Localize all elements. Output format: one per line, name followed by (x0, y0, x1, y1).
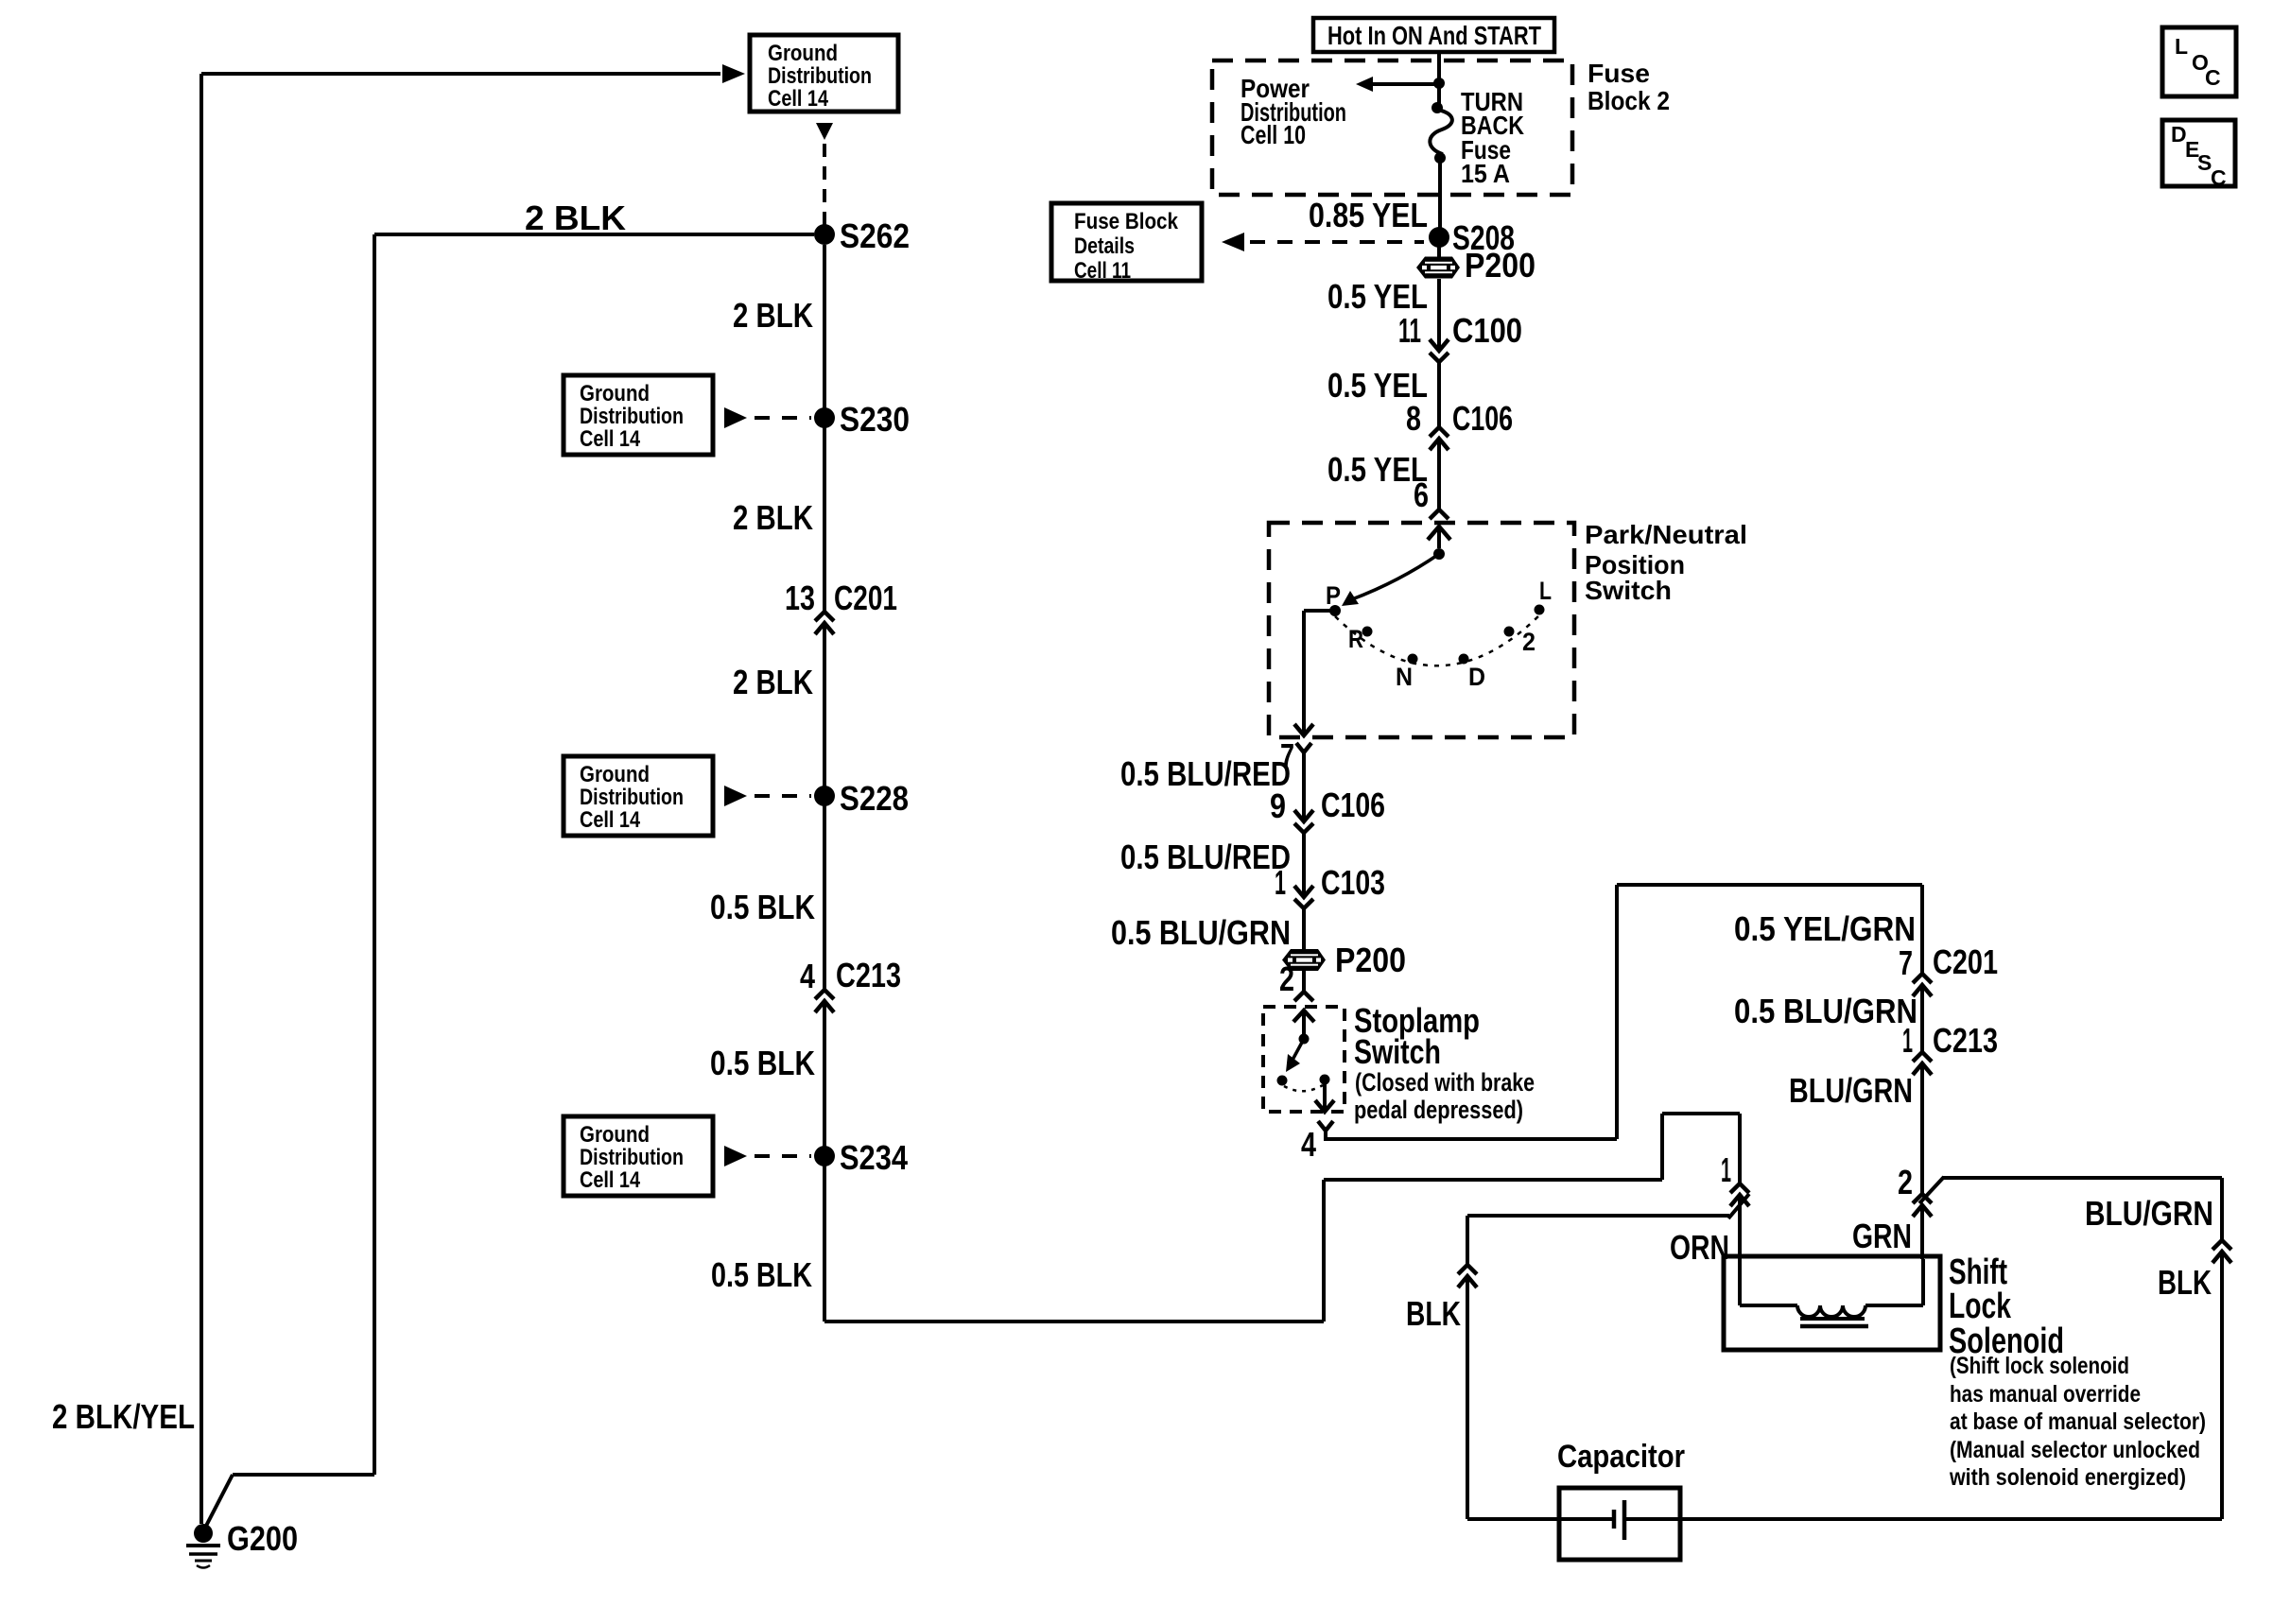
wire: right loop vertical lower part (2220, 1252, 2224, 1519)
svg-text:0.5 BLU/GRN: 0.5 BLU/GRN (1111, 913, 1291, 952)
wire: solenoid pin 2 internal drop (1921, 1259, 1925, 1305)
svg-text:6: 6 (1414, 475, 1429, 514)
wire: 0.5 BLK chain bottom horizontal (824, 1320, 1324, 1323)
wire: right column down to C201 connector 7 (1920, 885, 1924, 974)
svg-text:GRN: GRN (1852, 1217, 1912, 1255)
svg-text:C100: C100 (1452, 311, 1522, 350)
ground symbol G200 (186, 1546, 220, 1568)
svg-text:has manual override: has manual override (1950, 1381, 2141, 1408)
svg-text:Hot In ON And START: Hot In ON And START (1327, 21, 1541, 50)
svg-text:C213: C213 (836, 956, 901, 994)
node S230 (814, 407, 835, 428)
svg-text:1: 1 (1902, 1021, 1913, 1060)
wire: ORN connector 1 to solenoid pin 1 (1738, 1195, 1742, 1259)
contact N dot (1408, 654, 1418, 665)
svg-text:C: C (2205, 65, 2221, 90)
svg-text:2: 2 (1522, 628, 1536, 656)
wire: capacitor loop left segment (1467, 1517, 1612, 1521)
svg-text:S234: S234 (840, 1138, 908, 1177)
wire: connector 2 slash (1919, 1177, 1944, 1203)
stoplamp entry arrow (up) (1293, 1011, 1314, 1022)
stoplamp left contact dot (1277, 1076, 1288, 1086)
connector C100 pin 11 (down arrow and fork) (1430, 339, 1449, 362)
fuse lower terminal dot (1434, 152, 1446, 164)
svg-text:D: D (1468, 663, 1485, 691)
svg-text:C106: C106 (1452, 399, 1513, 438)
arrowhead fuse block internal arrow to Power Distribution (1356, 77, 1373, 92)
node G200 (194, 1524, 213, 1543)
wire: BLU/GRN C213 down to connector 2 (1920, 1063, 1924, 1194)
node S208 (1429, 227, 1449, 248)
wire: ORN jog up (1660, 1114, 1664, 1180)
svg-text:L: L (2175, 34, 2188, 59)
svg-text:Lock: Lock (1949, 1287, 2012, 1326)
svg-text:0.5 BLK: 0.5 BLK (711, 1255, 812, 1294)
wire: ground chain C201 to C213 connector (823, 623, 826, 990)
stoplamp right contact dot (1320, 1075, 1330, 1085)
svg-text:Switch: Switch (1354, 1032, 1441, 1071)
wire: fuse bottom to S208 (1438, 158, 1442, 237)
svg-text:0.5 BLK: 0.5 BLK (710, 1044, 815, 1082)
wire: connector 1 slash (1728, 1194, 1749, 1218)
svg-text:Cell 14: Cell 14 (580, 1167, 641, 1193)
dashed box: Park/Neutral Position Switch (1269, 523, 1574, 737)
svg-text:C103: C103 (1321, 863, 1385, 902)
wire: right loop vertical upper part (2220, 1178, 2224, 1240)
wire: solenoid internal left lead (1740, 1304, 1797, 1307)
dashed box: Stoplamp Switch (1263, 1007, 1345, 1112)
connector P200 (lower pass-through grommet) (1282, 949, 1326, 971)
svg-text:Distribution: Distribution (580, 404, 684, 429)
stoplamp arm arrowhead (1286, 1054, 1300, 1072)
svg-text:Fuse Block: Fuse Block (1074, 209, 1179, 234)
connector C106 pin 9 (down arrow and fork) (1294, 810, 1313, 833)
connector C201 pin 13 on ground chain (815, 612, 834, 634)
connector pin 2 at solenoid GRN lead (1913, 1194, 1932, 1217)
svg-text:2 BLK: 2 BLK (525, 199, 626, 237)
svg-text:P200: P200 (1465, 246, 1536, 285)
svg-text:2: 2 (1279, 959, 1294, 998)
wire: riser x=1400 (1322, 1180, 1326, 1322)
wire: BLK left vertical lower part to capacitor loop (1466, 1276, 1469, 1519)
park/neutral junction dot (1433, 548, 1445, 560)
contact 2 dot (1504, 627, 1515, 637)
wire: solenoid internal right lead (1865, 1304, 1923, 1307)
svg-text:Ground: Ground (580, 762, 650, 787)
box: Fuse Block Details Cell 11 (1051, 203, 1202, 281)
svg-text:Cell 14: Cell 14 (768, 86, 829, 112)
park/neutral switch arm to P (1352, 554, 1439, 599)
dashed line: Ground Distribution box3 to S228 (755, 794, 811, 798)
svg-text:N: N (1396, 663, 1413, 691)
core bar 1 of solenoid (1800, 1317, 1865, 1321)
svg-text:0.85 YEL: 0.85 YEL (1309, 196, 1428, 234)
connector C213 pin 1 right column (1913, 1052, 1932, 1075)
wire: 2 BLK second vertical down (373, 234, 376, 1475)
svg-text:Details: Details (1074, 233, 1135, 259)
contact P dot (1329, 605, 1341, 616)
wire: ORN jog top horizontal (1662, 1112, 1740, 1115)
svg-text:BLU/GRN: BLU/GRN (1789, 1071, 1913, 1110)
box: Shift Lock Solenoid (1724, 1256, 1940, 1350)
dashed line: Ground Distribution box4 to S234 (755, 1154, 811, 1158)
connector C106 pin 8 (fork and up arrow) (1430, 427, 1449, 450)
wire: park/neutral entry arrow stem (1437, 527, 1441, 548)
svg-text:Ground: Ground (768, 41, 838, 66)
box: Ground Distribution Cell 14 (S228) (564, 756, 713, 836)
stoplamp switch arm (1292, 1039, 1304, 1062)
wire: 0.5 YEL C106 to pin 6 fork (1437, 439, 1441, 510)
svg-text:2 BLK: 2 BLK (733, 663, 813, 701)
svg-text:0.5 BLU/RED: 0.5 BLU/RED (1120, 754, 1291, 793)
arrowhead from Ground Distribution box to S228 (724, 786, 747, 806)
svg-text:S228: S228 (840, 779, 909, 818)
svg-text:Cell 14: Cell 14 (580, 426, 641, 452)
core bar 2 of solenoid (1800, 1324, 1868, 1329)
wire: BLU/GRN top horizontal of right loop (1942, 1176, 2222, 1180)
wire: BLK left vertical upper part (1466, 1216, 1469, 1265)
wire: top horizontal y=936 to right column (1617, 883, 1922, 887)
arrowhead from Ground Distribution box to S234 (724, 1146, 747, 1166)
box: DESC legend (2162, 120, 2235, 186)
box: Ground Distribution Cell 14 (top) (750, 35, 898, 112)
box: Ground Distribution Cell 14 (S234) (564, 1116, 713, 1196)
wire: GRN connector 2 to solenoid pin 2 (1920, 1205, 1924, 1259)
svg-text:Fuse: Fuse (1588, 59, 1650, 88)
svg-text:P200: P200 (1335, 941, 1406, 979)
park/neutral exit arrow (down) at pin 7 (1294, 724, 1313, 735)
stoplamp upper contact dot (1299, 1034, 1310, 1045)
arrowhead to Fuse Block Details box (1222, 233, 1244, 251)
svg-text:BLK: BLK (1406, 1294, 1461, 1333)
connector on BLK wire left of capacitor (1458, 1265, 1477, 1287)
wire: 0.85 YEL S208 to P200 (1437, 237, 1441, 257)
svg-text:Park/Neutral: Park/Neutral (1585, 520, 1747, 549)
svg-text:Ground: Ground (580, 381, 650, 406)
box: Ground Distribution Cell 14 (S230) (564, 375, 713, 455)
wire: ORN drop to connector 1 (1738, 1114, 1742, 1183)
svg-text:P: P (1326, 581, 1341, 610)
connector P200 (upper pass-through grommet) (1416, 257, 1460, 279)
wire: ground chain S262 to C201 connector (823, 245, 826, 612)
svg-text:Ground: Ground (580, 1122, 650, 1148)
park/neutral arm arrowhead (1342, 591, 1359, 606)
fuse upper terminal dot (1431, 102, 1443, 113)
wire: capacitor loop right segment (1625, 1517, 2222, 1521)
arrowhead into Ground Distribution Cell 14 top box (722, 64, 745, 83)
wire: P200 to stoplamp pin 2 fork (1302, 971, 1306, 992)
svg-text:0.5 BLK: 0.5 BLK (710, 888, 815, 926)
wire: 0.5 BLU/RED C106 to C103 connector 1 (1302, 833, 1306, 897)
wire: stoplamp entry arrow stem (1302, 1011, 1306, 1034)
svg-text:G200: G200 (227, 1519, 298, 1558)
svg-text:C213: C213 (1933, 1021, 1998, 1060)
svg-text:C201: C201 (1933, 942, 1998, 981)
svg-text:S230: S230 (840, 400, 910, 439)
wire: pin 7 fork down to C106 connector 9 (1302, 752, 1306, 821)
connector on BLK wire right loop (2212, 1240, 2231, 1263)
svg-text:0.5 BLU/GRN: 0.5 BLU/GRN (1734, 992, 1917, 1030)
svg-text:11: 11 (1398, 311, 1421, 350)
pin 7 fork below box (1296, 743, 1311, 752)
contact L dot (1535, 605, 1545, 615)
svg-text:(Shift lock solenoid: (Shift lock solenoid (1950, 1353, 2129, 1379)
svg-text:R: R (1348, 625, 1363, 653)
wire: junction dot to fuse top (1437, 83, 1441, 108)
wire: riser x=1710 up (1615, 885, 1619, 1139)
node S228 (814, 786, 835, 806)
wire: 2 BLK/YEL ground feed horizontal to Ground Distribution box (201, 72, 720, 76)
svg-text:BLK: BLK (2158, 1263, 2212, 1302)
svg-text:C201: C201 (834, 579, 897, 617)
wire: feed from Hot In box into fuse block (1437, 52, 1441, 83)
wire: fuse block internal arrow shaft to Power Distribution (1373, 82, 1437, 86)
wire: 0.5 YEL C100 to C106 connector 8 (1437, 362, 1441, 427)
box: Hot In ON And START (1313, 18, 1554, 52)
connector pin 1 at solenoid ORN lead (1730, 1183, 1749, 1206)
svg-text:BLU/GRN: BLU/GRN (2085, 1194, 2213, 1233)
svg-text:Cell 11: Cell 11 (1074, 258, 1131, 284)
wire: stoplamp pin 4 fork stem and run right (1326, 1131, 1617, 1139)
svg-text:Capacitor: Capacitor (1557, 1439, 1685, 1475)
svg-text:S262: S262 (840, 216, 910, 255)
svg-text:1: 1 (1721, 1150, 1731, 1189)
svg-text:Block 2: Block 2 (1588, 86, 1670, 115)
dashed line: Ground Distribution box2 to S230 (755, 416, 811, 420)
wire: bottom jog toward G200 (233, 1473, 374, 1477)
svg-text:Switch: Switch (1585, 576, 1672, 605)
dashed box: Fuse Block 2 (1212, 60, 1572, 195)
dotted arc between stoplamp contacts (1284, 1085, 1323, 1091)
svg-text:C106: C106 (1321, 786, 1385, 824)
contact D dot (1459, 654, 1469, 665)
contact R dot (1362, 627, 1373, 637)
svg-text:0.5 YEL/GRN: 0.5 YEL/GRN (1734, 909, 1916, 948)
wire: ORN run horizontal y=1248 (1324, 1178, 1662, 1182)
arrowhead down from Ground Distribution Cell 14 top box (816, 123, 833, 140)
wire: 2 BLK from S262 going left (374, 233, 814, 236)
box: Capacitor (1559, 1488, 1680, 1560)
wire: 0.5 BLU/GRN C201 to C213 connector 1 (1920, 985, 1924, 1052)
svg-text:with solenoid energized): with solenoid energized) (1949, 1464, 2186, 1491)
wire: solenoid pin 1 internal drop (1738, 1259, 1742, 1305)
svg-text:Cell 14: Cell 14 (580, 807, 641, 833)
wire: 0.5 BLU/GRN C103 to P200 (1302, 908, 1306, 949)
svg-text:ORN: ORN (1670, 1228, 1729, 1267)
svg-text:0.5 YEL: 0.5 YEL (1327, 277, 1428, 316)
svg-text:4: 4 (1301, 1125, 1316, 1164)
svg-text:8: 8 (1406, 399, 1421, 438)
wire: park/neutral left leg down to exit arrow (1302, 611, 1306, 735)
svg-text:C: C (2211, 165, 2227, 190)
svg-text:Distribution: Distribution (580, 785, 684, 810)
svg-text:2 BLK/YEL: 2 BLK/YEL (52, 1397, 195, 1436)
svg-text:L: L (1539, 577, 1552, 605)
svg-text:15 A: 15 A (1461, 159, 1510, 188)
junction dot in fuse block (1433, 78, 1445, 89)
svg-text:2 BLK: 2 BLK (733, 296, 813, 335)
wire: 2 BLK/YEL long left vertical down to G200 (200, 74, 203, 1524)
svg-text:1: 1 (1275, 863, 1286, 902)
connector C103 pin 1 (down arrow and fork) (1294, 886, 1313, 908)
svg-text:0.5 BLU/RED: 0.5 BLU/RED (1120, 838, 1291, 876)
wire: ground chain C213 to bottom corner (823, 1001, 826, 1322)
stoplamp pin 2 fork above box (1294, 992, 1313, 1001)
svg-text:(Manual selector unlocked: (Manual selector unlocked (1950, 1437, 2200, 1463)
capacitor plates (1614, 1500, 1624, 1540)
svg-text:pedal depressed): pedal depressed) (1354, 1096, 1523, 1124)
connector C201 pin 7 right column (1913, 974, 1932, 996)
wire: 0.5 YEL P200 to C100 connector 11 (1437, 279, 1441, 351)
dashed line: Ground Distribution box1 to S262 (823, 144, 826, 227)
node S234 (814, 1146, 835, 1166)
wire: BLK lower horizontal to connector 1 (1467, 1214, 1729, 1218)
box: LOC legend (2162, 27, 2236, 96)
dashed contact arc P to L (1335, 615, 1539, 665)
svg-text:Distribution: Distribution (580, 1145, 684, 1170)
svg-text:2: 2 (1898, 1163, 1913, 1201)
stoplamp pin 4 fork below box (1318, 1121, 1333, 1131)
park/neutral entry arrow (up) (1428, 527, 1450, 540)
arrowhead from Ground Distribution box to S230 (724, 407, 747, 428)
dashed line: S208 to Fuse Block Details box (1250, 240, 1424, 244)
svg-text:at base of manual selector): at base of manual selector) (1950, 1408, 2206, 1435)
svg-text:7: 7 (1899, 943, 1913, 982)
svg-text:Cell 10: Cell 10 (1241, 120, 1306, 149)
svg-text:(Closed with brake: (Closed with brake (1355, 1068, 1535, 1097)
wire: stoplamp right contact to exit arrow (1323, 1084, 1327, 1112)
svg-text:13: 13 (785, 579, 815, 617)
connector pin 6 fork above Park/Neutral box (1430, 510, 1449, 519)
svg-text:4: 4 (800, 957, 815, 995)
wire: diagonal into G200 (204, 1475, 233, 1529)
fuse element: TURN BACK Fuse 15 A (1430, 110, 1451, 154)
coil: shift lock solenoid winding (1797, 1305, 1865, 1317)
svg-text:2 BLK: 2 BLK (733, 498, 813, 537)
stoplamp exit arrow (down) (1315, 1100, 1334, 1112)
svg-text:9: 9 (1270, 786, 1286, 825)
svg-text:Distribution: Distribution (768, 63, 872, 89)
wire: park/neutral P contact to left leg (1304, 609, 1335, 613)
connector C213 pin 4 on ground chain (815, 990, 834, 1012)
node S262 (814, 224, 835, 245)
